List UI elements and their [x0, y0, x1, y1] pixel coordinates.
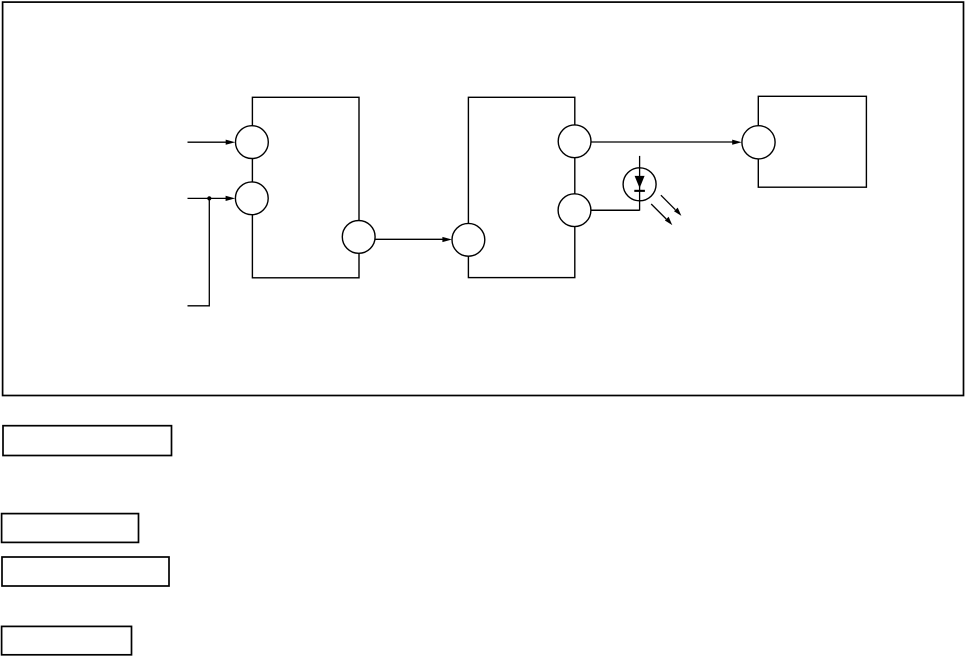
LED D1 cathode bar	[634, 190, 645, 192]
port circle P5 on U2 right edge	[558, 125, 591, 158]
port circle P3 on U1 right edge	[342, 221, 375, 254]
wire from P6 to LED cathode node	[591, 209, 640, 211]
callout box 4	[2, 626, 132, 654]
light emission arrow 1	[661, 195, 675, 210]
outer enclosure box of figure	[3, 2, 964, 395]
junction dot on wire 2	[207, 196, 211, 200]
port circle P4 on U2 left edge	[452, 223, 485, 256]
wire arrow from P3 to P4	[375, 238, 443, 240]
port circle P7 on U3 left edge	[742, 126, 775, 159]
input arrow wire 1 into P1	[188, 141, 227, 143]
port circle P1 on U1 left edge	[236, 126, 269, 159]
block U2 (middle rectangle)	[468, 97, 574, 277]
block U3 (right rectangle)	[758, 96, 866, 187]
callout box 3	[2, 557, 169, 586]
LED D1 diode triangle	[635, 176, 645, 188]
feedback wire from junction down and left	[188, 198, 210, 305]
callout box 1	[3, 426, 172, 456]
LED D1 vertical lead wire	[639, 156, 641, 211]
LED D1 circle	[623, 168, 656, 201]
port circle P2 on U1 left edge	[235, 182, 268, 215]
light emission arrow 2	[651, 204, 666, 219]
wire arrow from P5 to P7	[591, 141, 733, 143]
input arrow wire 2 into P2	[188, 197, 227, 199]
port circle P6 on U2 right edge	[558, 194, 591, 227]
block U1 (left rectangle)	[252, 97, 359, 277]
callout box 2	[2, 514, 139, 543]
